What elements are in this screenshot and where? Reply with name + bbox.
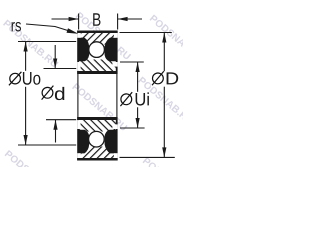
B arrow right <box>118 18 142 20</box>
label Uo <box>10 73 21 84</box>
D extension line top <box>120 32 172 34</box>
label B <box>93 13 100 25</box>
bore silhouette line left <box>77 74 79 117</box>
B extension line left <box>78 14 80 30</box>
label Ui <box>121 94 132 105</box>
watermark tile top-right <box>147 13 206 65</box>
label d <box>42 87 53 98</box>
D dimension line <box>163 33 165 158</box>
d arrow bottom <box>55 120 57 143</box>
Uo extension line bottom <box>18 144 76 146</box>
B arrow left <box>52 18 79 20</box>
Uo dimension line <box>25 42 27 146</box>
inner ring hatch bottom <box>79 120 117 132</box>
label Ui background <box>120 92 151 108</box>
Ui dimension line <box>137 62 139 128</box>
Ui extension line top <box>120 61 144 63</box>
label D <box>153 73 164 84</box>
watermark tile top-middle <box>73 11 132 63</box>
watermark tile right <box>136 75 195 127</box>
rs leader <box>26 24 71 32</box>
watermark tile bottom-right <box>140 156 199 208</box>
d extension line top <box>44 68 77 70</box>
label D background <box>151 71 180 87</box>
B extension line right <box>117 14 119 30</box>
label Uo background <box>8 71 42 87</box>
watermark tile bottom-left <box>2 149 61 201</box>
D extension line bottom <box>120 156 175 158</box>
outer ring hatch bottom <box>79 147 117 159</box>
watermark tile upper-left <box>1 18 60 70</box>
watermark tile middle <box>70 82 129 134</box>
ball top <box>89 42 105 58</box>
Ui extension line bottom <box>120 127 145 129</box>
bore silhouette line right <box>116 74 118 117</box>
d arrow top <box>54 45 56 69</box>
outer ring hatch top <box>79 33 117 45</box>
bearing top half-section <box>77 31 117 75</box>
ball bottom <box>89 131 105 147</box>
bearing bottom half-section (mirrored) <box>77 117 117 161</box>
Uo extension line top <box>18 41 76 43</box>
bearing sections background <box>77 31 117 75</box>
label rs <box>12 22 21 31</box>
inner ring hatch top <box>79 60 117 72</box>
d extension line bottom <box>46 119 76 121</box>
